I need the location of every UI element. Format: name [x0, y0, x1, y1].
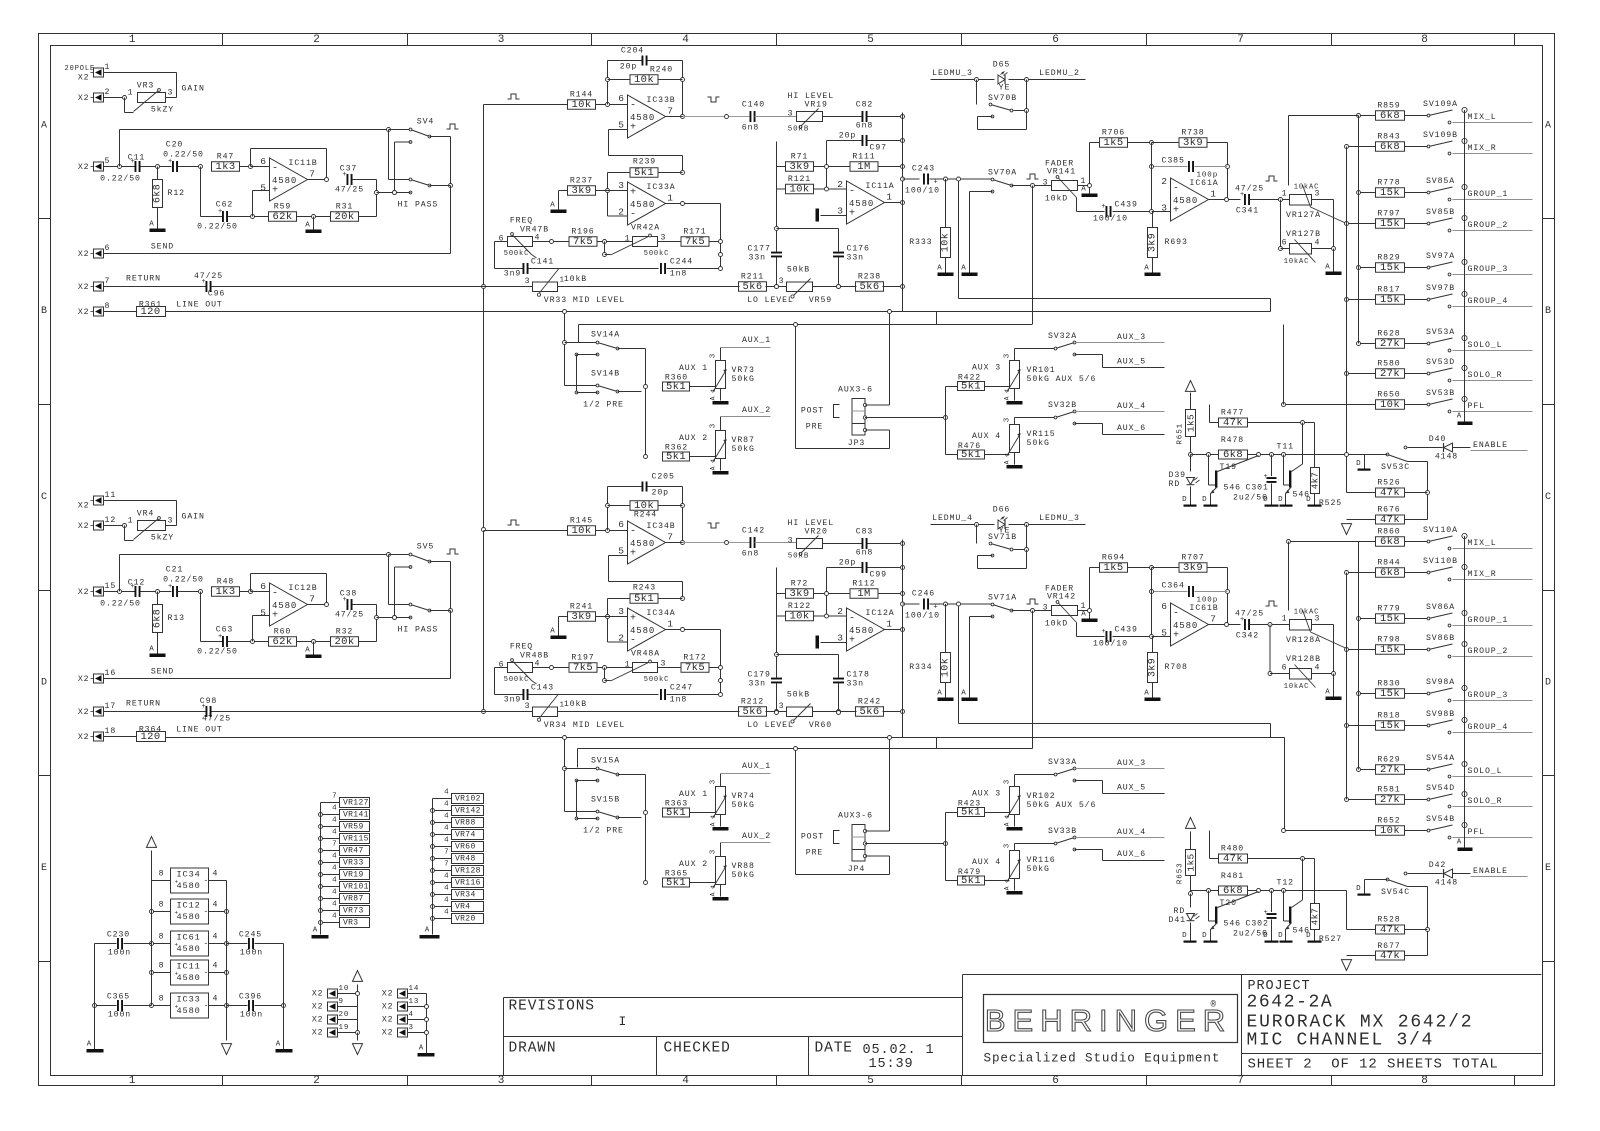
svg-text:3: 3: [525, 277, 531, 286]
svg-text:SV98A: SV98A: [1426, 678, 1455, 687]
svg-text:AUX3-6: AUX3-6: [838, 812, 873, 821]
svg-text:R212: R212: [741, 698, 764, 707]
svg-text:C341: C341: [1236, 207, 1259, 216]
svg-text:6: 6: [618, 93, 625, 104]
svg-text:D: D: [1356, 460, 1361, 468]
svg-text:GAIN: GAIN: [182, 85, 205, 94]
svg-text:RETURN: RETURN: [126, 275, 161, 284]
svg-text:4: 4: [409, 1011, 414, 1019]
svg-text:4: 4: [444, 873, 449, 881]
svg-text:SV54D: SV54D: [1426, 784, 1455, 793]
svg-text:5k1: 5k1: [666, 877, 686, 889]
svg-text:IC12: IC12: [177, 901, 201, 911]
svg-text:1k5: 1k5: [1103, 137, 1123, 149]
svg-text:T12: T12: [1277, 879, 1294, 888]
svg-text:1: 1: [886, 619, 893, 630]
svg-text:AUX_3: AUX_3: [1117, 759, 1146, 768]
svg-text:D: D: [1278, 496, 1283, 504]
svg-text:SV33A: SV33A: [1048, 758, 1077, 767]
svg-text:VR101: VR101: [1027, 366, 1056, 375]
svg-text:VR34: VR34: [455, 890, 476, 899]
svg-text:SV33B: SV33B: [1048, 827, 1077, 836]
svg-text:3: 3: [498, 1075, 506, 1087]
svg-text:C178: C178: [847, 671, 870, 680]
svg-text:ENABLE: ENABLE: [1473, 867, 1508, 876]
svg-text:6k8: 6k8: [1380, 567, 1400, 579]
svg-text:62k: 62k: [272, 636, 292, 648]
svg-text:AUX3-6: AUX3-6: [838, 386, 873, 395]
svg-text:R843: R843: [1377, 133, 1400, 142]
svg-text:SV86A: SV86A: [1426, 603, 1455, 612]
svg-text:6: 6: [260, 156, 267, 167]
svg-text:PRE: PRE: [806, 423, 823, 432]
svg-text:4: 4: [213, 933, 219, 942]
svg-text:R71: R71: [791, 153, 808, 162]
svg-text:R653: R653: [1177, 863, 1185, 885]
svg-text:DATE: DATE: [815, 1041, 853, 1057]
svg-text:VR127A: VR127A: [1286, 211, 1321, 220]
svg-text:1: 1: [710, 458, 717, 463]
svg-text:3n9: 3n9: [504, 696, 521, 705]
svg-text:+: +: [630, 123, 637, 134]
svg-text:R817: R817: [1377, 286, 1400, 295]
svg-text:15k: 15k: [1380, 187, 1400, 199]
svg-text:SOLO_R: SOLO_R: [1468, 371, 1503, 380]
svg-text:8: 8: [159, 995, 165, 1004]
svg-text:GROUP_1: GROUP_1: [1468, 190, 1509, 199]
svg-text:A: A: [937, 690, 942, 698]
svg-text:C: C: [41, 492, 48, 503]
svg-text:500kC: 500kC: [644, 676, 670, 684]
svg-text:1: 1: [710, 388, 717, 393]
svg-text:3k9: 3k9: [1147, 658, 1159, 677]
svg-text:C396: C396: [239, 993, 262, 1002]
svg-text:A: A: [425, 927, 430, 935]
svg-text:A: A: [1004, 886, 1011, 891]
svg-text:100/10: 100/10: [905, 186, 940, 196]
svg-text:R580: R580: [1377, 360, 1400, 369]
svg-text:X2: X2: [78, 502, 90, 511]
svg-text:4: 4: [332, 913, 337, 921]
svg-text:19: 19: [339, 1024, 350, 1032]
svg-text:A: A: [149, 221, 154, 229]
svg-text:1: 1: [625, 235, 631, 244]
svg-text:3k9: 3k9: [1183, 137, 1203, 149]
svg-text:4580: 4580: [630, 113, 655, 123]
svg-text:R31: R31: [336, 203, 353, 212]
svg-text:-: -: [204, 940, 210, 949]
svg-text:VR4: VR4: [455, 902, 470, 911]
svg-text:R145: R145: [570, 517, 593, 526]
svg-text:50kG: 50kG: [732, 444, 755, 454]
svg-text:R32: R32: [336, 628, 353, 637]
svg-text:LEDMU_4: LEDMU_4: [932, 514, 973, 523]
svg-text:IC33: IC33: [177, 995, 201, 1005]
svg-text:VR128A: VR128A: [1286, 636, 1321, 645]
svg-text:MIX_L: MIX_L: [1468, 113, 1497, 122]
svg-text:SV53C: SV53C: [1381, 463, 1410, 472]
svg-text:SV15B: SV15B: [591, 796, 620, 805]
svg-text:3: 3: [788, 110, 794, 119]
svg-text:33n: 33n: [847, 680, 864, 689]
svg-text:A: A: [961, 265, 966, 273]
svg-text:6k8: 6k8: [152, 184, 164, 203]
svg-text:A: A: [1004, 822, 1011, 827]
svg-text:1/2 PRE: 1/2 PRE: [583, 400, 624, 410]
svg-text:R860: R860: [1377, 528, 1400, 537]
svg-text:4: 4: [332, 853, 337, 861]
svg-text:R144: R144: [570, 91, 593, 100]
svg-text:3k9: 3k9: [789, 588, 809, 600]
svg-text:15: 15: [105, 582, 117, 591]
svg-text:GROUP_1: GROUP_1: [1468, 616, 1509, 625]
svg-text:VR88: VR88: [732, 862, 755, 871]
svg-text:R48: R48: [217, 578, 234, 587]
svg-text:R818: R818: [1377, 712, 1400, 721]
svg-text:5k1: 5k1: [961, 381, 981, 393]
svg-text:6n8: 6n8: [742, 124, 759, 133]
svg-text:C141: C141: [531, 258, 554, 267]
svg-text:1M: 1M: [857, 161, 870, 173]
svg-text:2: 2: [837, 606, 844, 617]
svg-text:VR74: VR74: [732, 792, 755, 801]
svg-text:4580: 4580: [177, 912, 201, 922]
svg-text:18: 18: [105, 727, 117, 736]
svg-text:A: A: [419, 1045, 424, 1053]
svg-text:R778: R778: [1377, 179, 1400, 188]
svg-text:R694: R694: [1102, 554, 1125, 563]
svg-text:R211: R211: [741, 273, 764, 282]
svg-text:R581: R581: [1377, 786, 1400, 795]
svg-text:C364: C364: [1162, 582, 1185, 591]
svg-text:E: E: [1545, 863, 1552, 874]
svg-text:5: 5: [867, 1075, 875, 1087]
svg-text:-: -: [204, 877, 210, 886]
svg-text:+: +: [934, 604, 939, 612]
svg-text:SV71B: SV71B: [988, 533, 1017, 542]
svg-text:R706: R706: [1102, 129, 1125, 138]
svg-text:GROUP_2: GROUP_2: [1468, 221, 1509, 230]
svg-text:7: 7: [1210, 614, 1217, 625]
svg-text:6: 6: [105, 244, 111, 253]
svg-text:3: 3: [618, 180, 625, 191]
svg-text:3n9: 3n9: [504, 270, 521, 279]
svg-text:47k: 47k: [1380, 950, 1400, 962]
svg-text:3: 3: [837, 633, 844, 644]
svg-text:50kG: 50kG: [732, 870, 755, 880]
svg-text:C140: C140: [742, 101, 765, 110]
svg-text:R237: R237: [570, 177, 593, 186]
svg-text:X2: X2: [78, 283, 90, 292]
svg-text:3: 3: [618, 606, 625, 617]
svg-text:6k8: 6k8: [1380, 141, 1400, 153]
svg-text:4: 4: [213, 995, 219, 1004]
svg-text:VR115: VR115: [343, 834, 369, 843]
svg-text:546: 546: [1224, 920, 1241, 929]
svg-text:VR73: VR73: [732, 366, 755, 375]
svg-text:4: 4: [1315, 664, 1321, 673]
svg-text:SV32B: SV32B: [1048, 401, 1077, 410]
svg-text:4148: 4148: [1435, 879, 1458, 888]
svg-text:SV109A: SV109A: [1423, 100, 1458, 109]
svg-text:FREQ: FREQ: [510, 217, 533, 226]
svg-text:8: 8: [105, 302, 111, 311]
svg-text:3: 3: [1004, 417, 1012, 422]
svg-text:1: 1: [1282, 190, 1288, 199]
svg-text:CHECKED: CHECKED: [664, 1041, 731, 1057]
svg-text:1: 1: [129, 1075, 137, 1087]
svg-text:+: +: [175, 879, 180, 886]
svg-text:3: 3: [525, 702, 531, 711]
svg-text:10k: 10k: [789, 611, 809, 623]
svg-text:5k1: 5k1: [634, 593, 654, 605]
svg-text:C204: C204: [621, 47, 644, 56]
svg-text:1: 1: [1282, 615, 1288, 624]
svg-text:GAIN: GAIN: [182, 513, 205, 522]
svg-text:3: 3: [1043, 604, 1049, 613]
svg-text:MIX_R: MIX_R: [1468, 570, 1497, 579]
svg-text:4580: 4580: [630, 539, 655, 549]
svg-text:VR60: VR60: [809, 721, 832, 730]
svg-text:VR59: VR59: [343, 822, 364, 831]
svg-text:®: ®: [1211, 1000, 1217, 1010]
svg-text:R112: R112: [852, 580, 875, 589]
svg-text:47/25: 47/25: [1235, 609, 1264, 619]
svg-text:C247: C247: [670, 684, 693, 693]
svg-text:100/10: 100/10: [1093, 639, 1128, 649]
svg-text:47k: 47k: [1380, 514, 1400, 526]
svg-text:R779: R779: [1377, 605, 1400, 614]
svg-text:7: 7: [667, 532, 674, 543]
svg-text:C11: C11: [128, 154, 145, 163]
svg-text:6: 6: [260, 581, 267, 592]
svg-text:VR48A: VR48A: [631, 650, 660, 659]
svg-text:MIX_L: MIX_L: [1468, 539, 1497, 548]
svg-text:1k3: 1k3: [215, 161, 235, 173]
svg-text:A: A: [1144, 265, 1149, 273]
svg-text:6: 6: [499, 235, 505, 244]
svg-text:62k: 62k: [272, 211, 292, 223]
svg-text:C37: C37: [340, 165, 357, 174]
svg-text:R859: R859: [1377, 102, 1400, 111]
svg-text:R243: R243: [633, 584, 656, 593]
svg-text:SOLO_L: SOLO_L: [1468, 767, 1503, 776]
svg-text:A: A: [710, 892, 717, 897]
svg-text:10kB: 10kB: [564, 699, 587, 709]
svg-text:5: 5: [618, 546, 625, 557]
svg-text:C177: C177: [748, 245, 771, 254]
svg-text:5k1: 5k1: [634, 167, 654, 179]
svg-text:0.22/50: 0.22/50: [197, 222, 238, 232]
svg-text:E: E: [41, 863, 48, 874]
svg-text:15k: 15k: [1380, 644, 1400, 656]
svg-text:5: 5: [1161, 628, 1168, 639]
svg-text:X2: X2: [78, 74, 90, 83]
svg-text:4: 4: [444, 885, 449, 893]
svg-text:R13: R13: [168, 614, 185, 623]
svg-text:AUX 4: AUX 4: [972, 432, 1001, 441]
svg-text:A: A: [276, 1041, 281, 1049]
svg-text:4: 4: [444, 837, 449, 845]
svg-text:10kAC: 10kAC: [1284, 258, 1310, 266]
svg-text:SV54C: SV54C: [1381, 888, 1410, 897]
svg-text:R12: R12: [168, 189, 185, 198]
svg-text:IC11B: IC11B: [289, 159, 318, 168]
svg-text:R59: R59: [274, 203, 291, 212]
svg-text:6k8: 6k8: [1223, 449, 1243, 461]
svg-text:100n: 100n: [240, 1011, 263, 1020]
svg-text:+: +: [175, 971, 180, 978]
svg-text:HI PASS: HI PASS: [398, 201, 439, 210]
svg-text:AUX 2: AUX 2: [679, 860, 708, 869]
svg-text:X2: X2: [78, 733, 90, 742]
svg-text:8: 8: [159, 870, 165, 879]
svg-text:VR19: VR19: [343, 870, 364, 879]
svg-text:10k: 10k: [634, 500, 654, 512]
svg-text:6: 6: [1052, 34, 1060, 46]
svg-text:VR128B: VR128B: [1286, 655, 1321, 664]
svg-text:D39: D39: [1169, 471, 1186, 480]
svg-text:1: 1: [1004, 814, 1011, 819]
svg-text:R47: R47: [217, 153, 234, 162]
svg-text:SV4: SV4: [417, 118, 434, 127]
svg-text:B: B: [1545, 306, 1552, 317]
svg-text:VR88: VR88: [455, 818, 476, 827]
svg-text:LINE OUT: LINE OUT: [176, 726, 223, 735]
svg-text:R196: R196: [571, 228, 594, 237]
svg-text:4: 4: [682, 34, 690, 46]
svg-text:X2: X2: [78, 308, 90, 317]
svg-text:5k1: 5k1: [666, 451, 686, 463]
svg-text:I: I: [619, 1014, 628, 1029]
svg-text:47k: 47k: [1380, 924, 1400, 936]
svg-text:R797: R797: [1377, 210, 1400, 219]
svg-text:HI PASS: HI PASS: [398, 626, 439, 635]
svg-text:4: 4: [682, 1075, 690, 1087]
svg-text:+: +: [175, 910, 180, 917]
svg-text:5k6: 5k6: [742, 281, 762, 293]
svg-text:13: 13: [409, 998, 420, 1006]
svg-text:+: +: [630, 549, 637, 560]
svg-text:+: +: [1102, 203, 1107, 211]
svg-text:5k6: 5k6: [859, 706, 879, 718]
svg-text:1k5: 1k5: [1186, 414, 1197, 432]
svg-text:4: 4: [213, 962, 219, 971]
svg-text:VR20: VR20: [805, 528, 828, 537]
svg-text:AUX_6: AUX_6: [1117, 424, 1146, 433]
svg-text:3k9: 3k9: [789, 161, 809, 173]
svg-text:BEHRINGER: BEHRINGER: [985, 1003, 1232, 1038]
svg-text:AUX_2: AUX_2: [742, 406, 771, 415]
svg-text:+: +: [630, 188, 637, 199]
svg-text:3: 3: [1004, 353, 1012, 358]
svg-text:AUX_6: AUX_6: [1117, 850, 1146, 859]
svg-text:27k: 27k: [1380, 368, 1400, 380]
svg-text:R238: R238: [858, 273, 881, 282]
svg-text:AUX 3: AUX 3: [972, 364, 1001, 373]
svg-text:7k5: 7k5: [685, 662, 705, 674]
svg-text:6: 6: [1052, 1075, 1060, 1087]
svg-text:AUX 3: AUX 3: [972, 790, 1001, 799]
svg-text:10k: 10k: [634, 74, 654, 86]
svg-text:SV109B: SV109B: [1423, 131, 1458, 140]
svg-text:C176: C176: [847, 245, 870, 254]
svg-text:500kC: 500kC: [504, 676, 530, 684]
svg-text:-: -: [204, 1002, 210, 1011]
svg-text:50kB: 50kB: [787, 265, 810, 275]
svg-text:C83: C83: [856, 528, 873, 537]
svg-text:C246: C246: [912, 590, 935, 599]
svg-text:LO LEVEL: LO LEVEL: [747, 721, 794, 730]
svg-text:AUX_5: AUX_5: [1117, 784, 1146, 793]
svg-text:8: 8: [159, 962, 165, 971]
svg-text:6: 6: [618, 519, 625, 530]
svg-text:1: 1: [667, 193, 674, 204]
svg-text:VR33 MID LEVEL: VR33 MID LEVEL: [544, 296, 625, 305]
svg-text:4580: 4580: [177, 973, 201, 983]
svg-text:A: A: [149, 646, 154, 654]
svg-text:+: +: [1173, 631, 1180, 642]
svg-text:+: +: [1264, 473, 1269, 481]
svg-text:B: B: [41, 306, 48, 317]
svg-text:A: A: [41, 121, 48, 132]
svg-text:X2: X2: [382, 1016, 394, 1025]
svg-text:47/25: 47/25: [335, 185, 364, 195]
svg-text:A: A: [1004, 460, 1011, 465]
svg-text:100n: 100n: [108, 949, 131, 958]
svg-text:-: -: [272, 164, 279, 175]
svg-text:6k8: 6k8: [1380, 536, 1400, 548]
svg-text:3: 3: [779, 277, 785, 286]
svg-text:47/25: 47/25: [1235, 184, 1264, 194]
svg-text:-: -: [630, 636, 637, 647]
svg-text:4: 4: [213, 901, 219, 910]
svg-text:10kD: 10kD: [1045, 619, 1068, 629]
svg-text:VR127B: VR127B: [1286, 230, 1321, 239]
svg-text:D: D: [1278, 932, 1283, 940]
svg-text:POST: POST: [801, 407, 824, 416]
svg-text:20p: 20p: [839, 559, 856, 568]
svg-text:SOLO_R: SOLO_R: [1468, 797, 1503, 806]
svg-text:IC61: IC61: [177, 933, 201, 943]
svg-text:5k1: 5k1: [666, 807, 686, 819]
svg-text:X2: X2: [312, 990, 324, 999]
svg-text:R172: R172: [683, 654, 706, 663]
svg-text:2: 2: [837, 179, 844, 190]
svg-text:05.02. 1: 05.02. 1: [863, 1043, 935, 1058]
svg-text:D: D: [1202, 496, 1207, 504]
svg-text:LEDMU_3: LEDMU_3: [932, 69, 973, 78]
svg-text:20POLE: 20POLE: [65, 65, 96, 73]
svg-text:1k5: 1k5: [1103, 562, 1123, 574]
svg-text:4: 4: [444, 825, 449, 833]
svg-text:2: 2: [313, 34, 321, 46]
svg-text:4k7: 4k7: [1311, 908, 1321, 925]
svg-text:+: +: [175, 1004, 180, 1011]
svg-text:-: -: [1173, 184, 1180, 195]
svg-text:4580: 4580: [177, 944, 201, 954]
svg-text:10k: 10k: [1380, 399, 1400, 411]
svg-text:VR141: VR141: [1047, 168, 1076, 177]
svg-text:VR102: VR102: [1027, 792, 1056, 801]
svg-text:6: 6: [1161, 601, 1168, 612]
svg-text:1k5: 1k5: [1186, 853, 1197, 871]
svg-text:X2: X2: [78, 163, 90, 172]
svg-text:IC34: IC34: [177, 870, 201, 880]
svg-text:C12: C12: [128, 579, 145, 588]
svg-text:-: -: [272, 589, 279, 600]
svg-text:47/25: 47/25: [194, 271, 223, 281]
